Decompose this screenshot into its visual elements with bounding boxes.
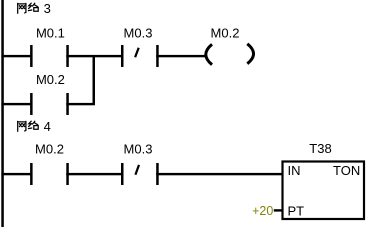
contact M0.1 right bar: [66, 45, 69, 67]
svg-text:+20: +20: [252, 204, 273, 218]
svg-text:3: 3: [44, 1, 51, 16]
branch wire: rail to M0.2: [1, 103, 31, 105]
svg-text:PT: PT: [288, 203, 305, 218]
wire: M0.3 to coil: [156, 55, 206, 57]
svg-text:M0.3: M0.3: [124, 25, 153, 40]
svg-text:M0.2: M0.2: [211, 25, 240, 40]
contact M0.3 right bar: [156, 45, 159, 67]
network 4 label (网络 4): [18, 119, 51, 134]
rung2 contact M0.3 right bar: [156, 163, 159, 185]
wire: M0.2 to M0.3 (rung2): [66, 173, 123, 175]
glyph 网: [18, 3, 26, 13]
rung2 contact M0.2 right bar: [66, 163, 69, 185]
svg-text:M0.1: M0.1: [36, 25, 65, 40]
rung 2 wire: rail to M0.2: [1, 173, 31, 175]
branch wire: M0.2 to junction: [66, 103, 95, 105]
glyph 络: [28, 3, 38, 11]
svg-text:M0.2: M0.2: [36, 72, 65, 87]
svg-text:TON: TON: [333, 163, 360, 178]
glyph 络: [28, 121, 38, 129]
svg-text:M0.3: M0.3: [124, 141, 153, 156]
svg-text:IN: IN: [288, 163, 301, 178]
network 3 label (网络 3): [18, 1, 51, 16]
svg-text:M0.2: M0.2: [35, 141, 64, 156]
NC slash of M0.3: [135, 48, 139, 58]
junction: branch drop: [93, 55, 96, 105]
svg-text:T38: T38: [309, 141, 331, 156]
contact M0.1 left bar: [30, 45, 32, 67]
rung 1 wire: rail to M0.1: [1, 55, 31, 57]
coil M0.2 right paren: [247, 44, 253, 64]
PT input stub wire: [274, 209, 283, 211]
timer box T38 TON outline: [283, 162, 365, 220]
rung2 contact M0.2 left bar: [30, 163, 32, 185]
rung2 contact M0.3 left bar: [121, 163, 124, 185]
wire: M0.3 to timer box IN: [156, 173, 283, 175]
NC slash of M0.3 (rung2): [135, 165, 139, 175]
coil M0.2 left paren: [206, 44, 212, 64]
branch contact M0.2 left bar: [30, 93, 32, 115]
branch contact M0.2 right bar: [66, 93, 69, 115]
svg-text:4: 4: [44, 119, 51, 134]
contact M0.3 left bar: [121, 45, 124, 67]
glyph 网: [18, 121, 26, 131]
left power rail: [1, 0, 4, 227]
wire: M0.1 to M0.3: [66, 55, 123, 57]
